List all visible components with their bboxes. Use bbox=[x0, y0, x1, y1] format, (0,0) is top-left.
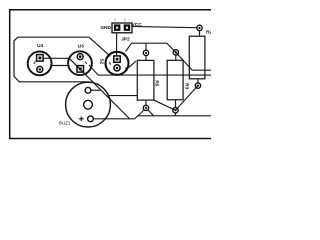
svg-text:GND: GND bbox=[100, 25, 111, 31]
svg-text:U3: U3 bbox=[78, 43, 84, 49]
svg-text:R5: R5 bbox=[154, 80, 160, 86]
svg-text:U4: U4 bbox=[37, 43, 43, 49]
svg-text:S2: S2 bbox=[98, 58, 104, 64]
svg-text:VCC: VCC bbox=[132, 22, 143, 28]
svg-text:R3: R3 bbox=[183, 83, 189, 89]
svg-text:R2: R2 bbox=[206, 30, 211, 36]
svg-text:JP2: JP2 bbox=[121, 37, 130, 43]
svg-text:BUZ1: BUZ1 bbox=[59, 120, 71, 125]
